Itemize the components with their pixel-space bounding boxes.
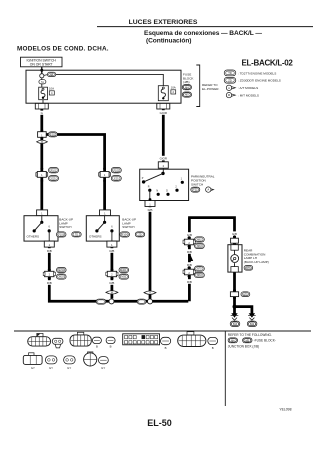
svg-text:F102: F102 xyxy=(114,169,120,172)
svg-text:: ZD30DDTi ENGINE MODELS: : ZD30DDTi ENGINE MODELS xyxy=(238,79,281,83)
svg-text:B: B xyxy=(96,345,98,349)
svg-text:F101: F101 xyxy=(51,169,57,172)
svg-text:(J/B): (J/B) xyxy=(183,80,190,84)
svg-text:MODELOS DE COND. DCHA.: MODELOS DE COND. DCHA. xyxy=(17,46,109,53)
svg-text:R: R xyxy=(148,186,150,189)
svg-text:B: B xyxy=(110,345,112,349)
svg-text:B: B xyxy=(212,346,214,350)
svg-text:R/B: R/B xyxy=(187,250,192,254)
svg-text:R/B: R/B xyxy=(47,281,52,285)
svg-text:Esquema de conexiones — BACK/L: Esquema de conexiones — BACK/L — xyxy=(144,30,262,37)
svg-text:R/B: R/B xyxy=(47,249,52,253)
svg-text:B13: B13 xyxy=(233,324,238,326)
svg-text:M: M xyxy=(111,292,113,295)
svg-text:R/B: R/B xyxy=(148,208,153,212)
svg-text:B76: B76 xyxy=(246,267,251,270)
svg-text:GY: GY xyxy=(49,366,53,370)
svg-text:R/B: R/B xyxy=(109,281,114,285)
svg-text:B22: B22 xyxy=(250,324,255,326)
svg-text:(BACK-UP LAMP): (BACK-UP LAMP) xyxy=(244,260,269,264)
svg-text:GY: GY xyxy=(67,366,71,370)
svg-text:OTHERS: OTHERS xyxy=(27,234,40,238)
svg-text:F22: F22 xyxy=(193,189,198,192)
svg-text:SWITCH: SWITCH xyxy=(122,225,134,229)
svg-text:GY: GY xyxy=(101,366,105,370)
svg-text:SWITCH: SWITCH xyxy=(191,182,203,186)
svg-text:EL-POWER.: EL-POWER. xyxy=(202,87,220,91)
svg-text:M33: M33 xyxy=(121,276,126,279)
svg-text:10A: 10A xyxy=(171,85,176,89)
svg-text:ON OR START: ON OR START xyxy=(30,62,53,66)
svg-text:E25: E25 xyxy=(51,177,56,180)
svg-text:R/B: R/B xyxy=(109,249,114,253)
svg-text:YEL098: YEL098 xyxy=(279,407,291,411)
svg-text:M4: M4 xyxy=(185,86,189,89)
svg-text:E211: E211 xyxy=(50,134,56,137)
svg-text:A: A xyxy=(228,86,230,90)
svg-text:10A: 10A xyxy=(49,86,54,90)
svg-text:: A/T MODELS: : A/T MODELS xyxy=(238,86,258,90)
svg-text:M33: M33 xyxy=(59,276,64,279)
svg-text:SWITCH: SWITCH xyxy=(59,225,71,229)
svg-text:EL-50: EL-50 xyxy=(147,418,172,428)
svg-text:TD: TD xyxy=(75,234,78,237)
svg-text:F103: F103 xyxy=(58,234,64,237)
svg-text:ZD: ZD xyxy=(228,78,232,82)
svg-text:E211: E211 xyxy=(59,269,65,272)
svg-text:M33: M33 xyxy=(197,274,202,277)
svg-text:EL-BACK/L-02: EL-BACK/L-02 xyxy=(242,59,294,68)
svg-text:E25: E25 xyxy=(114,177,119,180)
svg-text:M33: M33 xyxy=(197,245,202,248)
svg-text:ZD: ZD xyxy=(138,234,141,237)
svg-text:(Continuación): (Continuación) xyxy=(146,37,191,44)
svg-text:F104: F104 xyxy=(122,234,128,237)
svg-text:7A: 7A xyxy=(41,81,44,84)
svg-text:N: N xyxy=(156,190,158,193)
svg-text:OTHERS: OTHERS xyxy=(89,234,102,238)
svg-text:M: M xyxy=(228,93,230,97)
svg-text:: TD27Ti ENGINE MODELS: : TD27Ti ENGINE MODELS xyxy=(238,71,276,75)
svg-text:,: , xyxy=(240,339,241,343)
svg-text:JUNCTION BOX (J/B): JUNCTION BOX (J/B) xyxy=(228,345,259,349)
svg-text:G/OR: G/OR xyxy=(160,157,167,161)
svg-text:LUCES EXTERIORES: LUCES EXTERIORES xyxy=(129,19,198,26)
svg-text:G/OR: G/OR xyxy=(160,111,167,115)
svg-text:E211: E211 xyxy=(121,269,127,272)
svg-text:M: M xyxy=(41,141,43,144)
svg-text:-FUSE BLOCK-: -FUSE BLOCK- xyxy=(254,339,276,343)
svg-text:TD: TD xyxy=(228,71,232,75)
svg-text:4A: 4A xyxy=(50,74,53,77)
svg-text:R/B: R/B xyxy=(187,280,192,284)
svg-text:B: B xyxy=(165,346,167,350)
svg-text:GY: GY xyxy=(31,366,35,370)
svg-text:B75: B75 xyxy=(197,268,202,271)
svg-text:B75: B75 xyxy=(243,293,248,296)
svg-text:D: D xyxy=(166,190,168,193)
svg-text:: M/T MODELS: : M/T MODELS xyxy=(238,93,259,97)
svg-text:REFER TO THE FOLLOWING.: REFER TO THE FOLLOWING. xyxy=(228,333,272,337)
svg-text:M62: M62 xyxy=(197,239,202,242)
svg-text:M5: M5 xyxy=(185,94,189,97)
